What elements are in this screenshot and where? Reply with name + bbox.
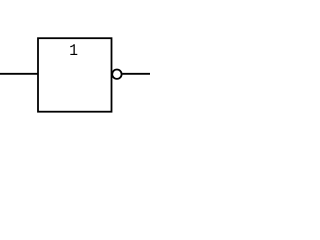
wire: input net to pin 1 <box>0 73 38 75</box>
wire: output net from bubble <box>122 73 150 75</box>
value label "1" (IEC buffer function symbol) <box>70 44 77 55</box>
inversion bubble on output <box>112 70 121 79</box>
inverter U1: IEC rectangular NOT-gate body <box>38 38 112 112</box>
